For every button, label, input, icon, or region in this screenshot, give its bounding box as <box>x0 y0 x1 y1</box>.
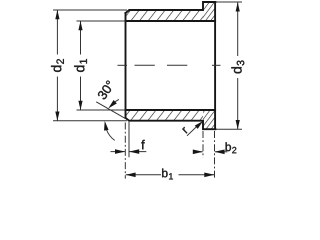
hatched cut face: lower flange section <box>203 110 215 129</box>
dimension b2 tails <box>194 151 228 153</box>
hatched cut face: upper wall of bushing body <box>126 10 204 21</box>
arrowheads b2 <box>193 150 225 155</box>
label b2 <box>226 142 237 153</box>
extension line: outer diameter bottom (d2, also 30deg angle leg) <box>53 120 127 122</box>
extension line: outer diameter top (d2) <box>53 9 127 11</box>
dimension f tails <box>111 151 147 153</box>
label d1 <box>74 59 87 72</box>
arrowheads f <box>115 149 139 154</box>
arrowheads d2 <box>55 10 59 121</box>
extension line vertical at chamfer end (for f) <box>128 122 130 158</box>
hatched cut face: upper flange section <box>203 2 215 21</box>
extension line vertical at flange right face (dash-dot, for b2 and b1) <box>214 131 216 179</box>
outline: bore upper line <box>126 20 216 22</box>
outline: left end face of bushing <box>125 13 127 118</box>
radius r arrowhead <box>195 121 203 129</box>
label 30deg <box>97 80 115 100</box>
extension line vertical at left end face (dash-dot, for f and b1) <box>124 123 126 179</box>
outline: right face of flange <box>214 2 216 129</box>
chamfer construction line extended at 30deg <box>96 102 125 119</box>
label d2 <box>51 59 64 72</box>
dimension b1 line <box>126 174 214 176</box>
extension line vertical at flange left face (dash-dot, for b2) <box>202 131 204 158</box>
outline: bore lower line <box>126 109 216 111</box>
arrowheads b1 <box>125 173 214 178</box>
extension line: flange top (d3) <box>216 1 242 3</box>
extension line: bore top (d1) <box>77 20 126 22</box>
30deg angle lower arrowhead <box>104 121 109 131</box>
30deg angle arc tail lower <box>106 130 114 141</box>
30deg angle arc tail upper <box>115 99 119 101</box>
dimension line d2 <box>56 10 58 121</box>
label b1 <box>162 169 173 180</box>
30deg angle upper arrowhead <box>108 100 117 109</box>
extension line: bore bottom (d1) <box>77 109 126 111</box>
extension line: flange bottom (d3) <box>216 128 242 130</box>
label f <box>141 140 144 149</box>
hatched cut face: lower wall of bushing body <box>126 110 204 121</box>
radius r leader line <box>187 127 197 136</box>
arrowheads d1 <box>78 21 82 110</box>
dimension line d1 <box>80 21 82 110</box>
centerline (bushing axis), dash-dot <box>118 64 221 66</box>
arrowheads d3 <box>236 2 240 129</box>
label r <box>182 127 189 134</box>
dimension line d3 <box>237 3 239 130</box>
outline: upper wall outer surface with chamfer and flange step <box>126 2 216 13</box>
label d3 <box>231 60 244 73</box>
outline: lower wall outer surface with chamfer and flange step <box>126 118 216 129</box>
